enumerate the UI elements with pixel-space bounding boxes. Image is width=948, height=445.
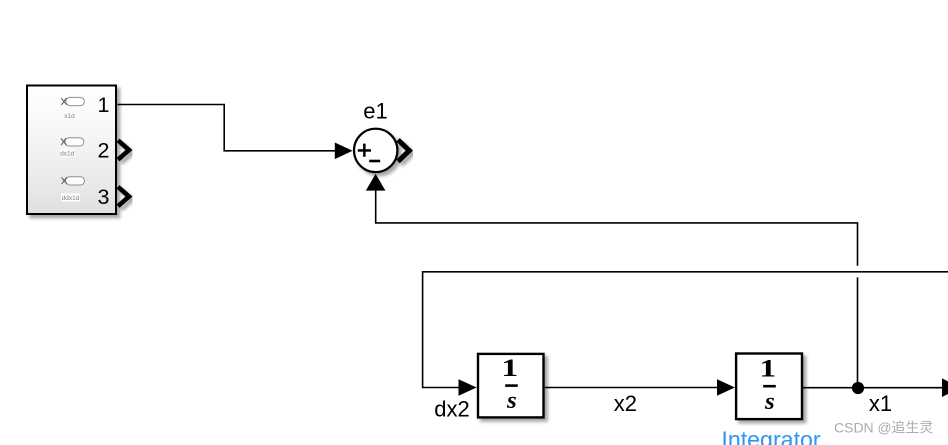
sum block e1 <box>354 129 397 172</box>
svg-text:Integrator: Integrator <box>721 427 821 445</box>
signal icon ddx1d <box>62 177 85 185</box>
label dx2 <box>434 397 469 422</box>
svg-text:1: 1 <box>98 93 110 117</box>
svg-text:x1d: x1d <box>64 113 75 120</box>
label e1 <box>363 99 387 124</box>
svg-text:3: 3 <box>98 185 110 209</box>
integrator block 1 (1/s) <box>478 354 544 418</box>
integrator 2 denominator s <box>764 388 775 415</box>
svg-text:x2: x2 <box>614 391 637 416</box>
label x1 <box>869 391 892 416</box>
signal icon dx1d <box>61 138 84 146</box>
loop wire to dx2 (from right edge) <box>423 272 948 388</box>
port 3 label <box>98 185 110 209</box>
unconnected output port 2 chevron <box>118 140 129 159</box>
svg-text:CSDN @: CSDN @ <box>834 419 892 435</box>
crossing gap on feedback wire <box>856 266 859 278</box>
integrator 2 numerator 1 <box>759 354 776 382</box>
integrator 2 name label <box>721 427 821 445</box>
watermark CSDN @zhuishengling <box>834 419 933 435</box>
unconnected sum output chevron <box>398 140 409 162</box>
svg-text:e1: e1 <box>363 99 387 124</box>
wire port 1 to sum <box>118 105 337 151</box>
integrator 1 fraction bar <box>505 384 518 387</box>
svg-text:dx2: dx2 <box>434 397 469 422</box>
label x1d <box>64 113 75 120</box>
signal icon x1d <box>61 97 84 105</box>
wire x2 <box>545 387 718 389</box>
svg-text:1: 1 <box>759 354 776 382</box>
integrator block 2 (1/s) <box>736 354 802 420</box>
arrowhead into integrator 2 <box>717 379 735 396</box>
svg-text:1: 1 <box>501 354 518 382</box>
svg-text:s: s <box>764 388 775 415</box>
subsystem block (source of desired trajectories) <box>27 86 116 215</box>
port 2 label <box>98 139 110 163</box>
label x2 <box>614 391 637 416</box>
unconnected output port 3 chevron <box>118 187 129 206</box>
wire x1 <box>803 387 943 389</box>
sum plus sign <box>358 144 371 157</box>
svg-text:x1: x1 <box>869 391 892 416</box>
port 1 label <box>98 93 110 117</box>
integrator 1 denominator s <box>506 387 517 414</box>
sum minus sign <box>369 160 380 163</box>
integrator 2 fraction bar <box>763 385 776 388</box>
integrator 1 numerator 1 <box>501 354 518 382</box>
svg-text:dx1d: dx1d <box>60 151 74 158</box>
arrowhead leaving right edge <box>942 378 948 397</box>
svg-text:s: s <box>506 387 517 414</box>
arrowhead into sum - input <box>366 174 386 191</box>
arrowhead into sum + input <box>335 143 353 160</box>
label dx1d <box>60 149 76 158</box>
svg-text:ddx1d: ddx1d <box>62 195 80 202</box>
label ddx1d <box>61 193 80 202</box>
feedback wire from x1 node to sum minus input <box>376 190 858 387</box>
arrowhead into integrator 1 <box>459 379 477 396</box>
junction dot x1 <box>852 382 864 394</box>
svg-text:2: 2 <box>98 139 110 163</box>
